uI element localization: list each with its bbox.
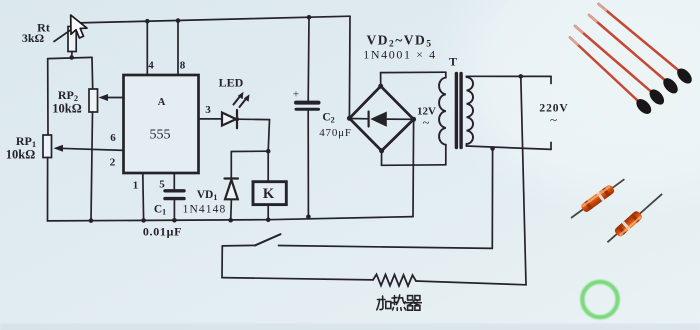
svg-text:3: 3 [205, 104, 211, 116]
svg-text:1N4148: 1N4148 [183, 204, 227, 216]
svg-text:~: ~ [550, 112, 557, 127]
svg-text:LED: LED [219, 76, 244, 90]
svg-text:10kΩ: 10kΩ [6, 148, 35, 162]
svg-text:T: T [449, 55, 457, 69]
svg-text:4: 4 [148, 60, 154, 72]
svg-text:470μF: 470μF [319, 127, 352, 139]
svg-text:8: 8 [180, 60, 186, 72]
svg-text:~: ~ [422, 115, 429, 130]
svg-text:6: 6 [110, 132, 116, 144]
svg-text:0.01μF: 0.01μF [143, 225, 182, 239]
svg-text:A: A [158, 97, 166, 108]
svg-text:3kΩ: 3kΩ [22, 31, 45, 45]
svg-text:+: + [293, 89, 299, 101]
svg-text:1N4001 × 4: 1N4001 × 4 [363, 48, 436, 62]
svg-text:555: 555 [150, 128, 171, 143]
svg-text:K: K [263, 186, 275, 202]
svg-text:1: 1 [133, 180, 139, 192]
svg-text:5: 5 [159, 179, 165, 191]
svg-text:10kΩ: 10kΩ [52, 102, 81, 116]
svg-text:2: 2 [110, 157, 116, 169]
